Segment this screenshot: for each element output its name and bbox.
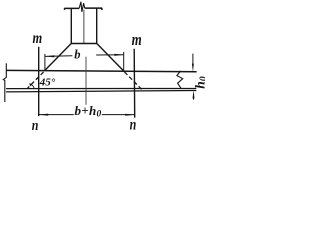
beam left end edge with break jog: [3, 63, 6, 102]
column left edge: [70, 8, 72, 43]
column base plate line: [71, 43, 97, 45]
b+h0 dimension line: [39, 114, 135, 116]
beam bottom line 2: [6, 91, 196, 92]
right dashed spread line inside beam: [124, 72, 141, 90]
b dimension right arrowhead: [114, 54, 123, 56]
left dashed spread line inside beam: [27, 72, 43, 89]
svg-text:n: n: [130, 117, 137, 134]
svg-text:m: m: [33, 30, 43, 48]
h0 dimension upper line: [192, 54, 194, 65]
b dimension line: [45, 55, 124, 57]
column top cut line: [64, 8, 102, 10]
h0 dimension upper arrowhead (points down to beam top): [192, 64, 194, 72]
right section line m-n: [133, 49, 136, 118]
beam bottom line 1: [6, 88, 196, 90]
45 degree angle arc with arrowhead: [30, 84, 34, 88]
svg-text:b: b: [74, 47, 80, 61]
b dimension extension line right: [123, 52, 125, 71]
left 45-deg flare diagonal (solid): [45, 44, 71, 71]
h0 dimension lower arrowhead (points up to beam bottom): [193, 90, 195, 98]
svg-text:n: n: [32, 117, 39, 134]
column top break zigzag: [79, 2, 85, 12]
beam right break zigzag: [177, 71, 183, 89]
column center line: [83, 10, 85, 44]
b+h0 left arrowhead: [39, 114, 48, 116]
left section line m-n: [38, 47, 40, 116]
b+h0 right arrowhead: [125, 114, 134, 116]
column right edge: [96, 8, 98, 43]
b dimension extension line left: [44, 54, 46, 70]
svg-text:45°: 45°: [39, 77, 56, 89]
load axis line: [85, 57, 87, 105]
b dimension left arrowhead: [45, 55, 54, 57]
svg-text:m: m: [132, 32, 142, 50]
right 45-deg flare diagonal (solid): [97, 44, 124, 71]
beam top line: [6, 70, 196, 71]
h0 dimension lower line: [193, 95, 195, 100]
